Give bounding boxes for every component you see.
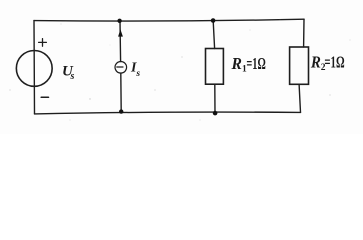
junction dot bottom node at R1 [213, 111, 218, 116]
wire R2 branch top [303, 19, 305, 47]
wire current-source branch bottom [120, 73, 122, 111]
svg-text:=1Ω: =1Ω [246, 54, 265, 73]
wire R1 branch bottom [214, 84, 216, 113]
svg-text:s: s [70, 71, 75, 82]
arrowhead current direction [118, 29, 123, 36]
junction dot top node at R1 [211, 18, 216, 23]
wire bottom [35, 112, 301, 114]
scan speckle noise [9, 20, 350, 121]
wire top [34, 19, 304, 21]
junction dot bottom node at current source [119, 109, 123, 113]
svg-text:R: R [231, 54, 242, 73]
svg-text:s: s [135, 69, 140, 79]
current source bar [117, 66, 123, 68]
current source I_s [115, 62, 127, 74]
minus polarity mark [41, 96, 48, 98]
svg-text:=1Ω: =1Ω [324, 52, 344, 71]
wire left vertical [33, 21, 36, 114]
wire R1 branch top [213, 21, 214, 49]
resistor R2 [290, 47, 309, 84]
plus polarity mark [39, 39, 47, 47]
junction dot top node at current source [117, 19, 121, 23]
svg-text:R: R [310, 52, 321, 71]
wire R2 branch bottom [299, 84, 300, 112]
wire current-source branch top [119, 21, 122, 62]
resistor R1 [206, 49, 224, 85]
voltage source U_s [16, 51, 52, 87]
